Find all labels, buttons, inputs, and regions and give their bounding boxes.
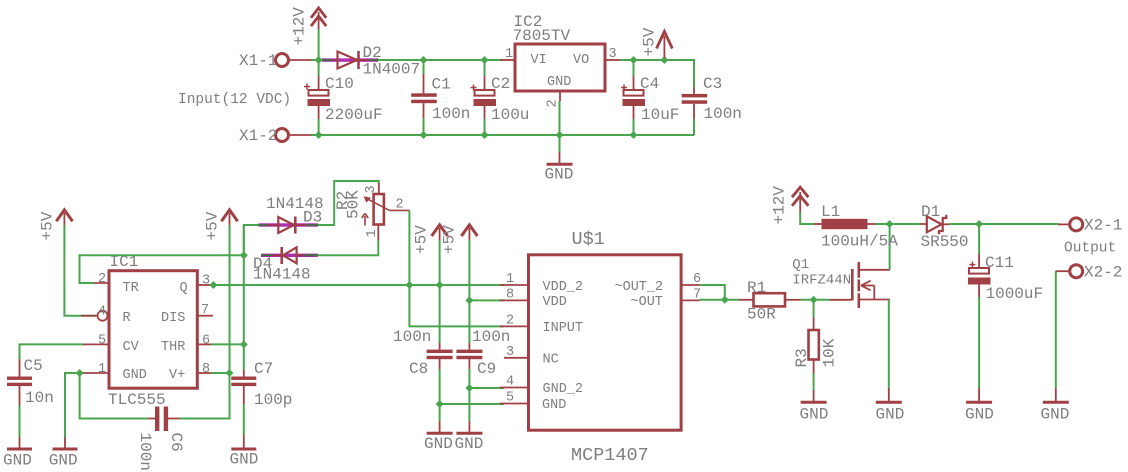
- ground symbol (C11): [965, 388, 994, 424]
- svg-text:VI: VI: [531, 53, 547, 68]
- svg-text:INPUT: INPUT: [543, 321, 584, 336]
- svg-text:GND: GND: [230, 451, 259, 469]
- svg-text:VO: VO: [573, 53, 589, 68]
- pin 4 GND_2: [500, 387, 529, 389]
- junction at V+ pin 8: [226, 369, 234, 377]
- svg-text:100n: 100n: [704, 105, 742, 123]
- ground symbol (Q1): [876, 388, 905, 424]
- svg-text:R: R: [123, 311, 131, 326]
- svg-text:100n: 100n: [393, 328, 431, 346]
- svg-text:7805TV: 7805TV: [513, 27, 571, 45]
- svg-text:Q1: Q1: [792, 257, 809, 273]
- junction TR/D4 net: [240, 251, 248, 259]
- svg-text:2: 2: [396, 198, 404, 213]
- svg-text:50K: 50K: [345, 190, 363, 219]
- wire vertical D3/D4/THR/C7: [243, 225, 245, 370]
- junction THR / C7 vertical: [240, 340, 248, 348]
- svg-text:C5: C5: [24, 357, 43, 375]
- svg-text:MCP1407: MCP1407: [571, 445, 649, 466]
- junction below C10: [315, 131, 323, 139]
- wire C6 right to V+ junction: [180, 373, 230, 419]
- junction above C11: [975, 220, 983, 228]
- svg-text:3: 3: [609, 47, 617, 62]
- svg-text:8: 8: [202, 362, 210, 377]
- ground symbol (C8): [424, 421, 453, 453]
- wire down to INPUT pin: [409, 285, 504, 326]
- connector X2-2: [1056, 264, 1123, 282]
- svg-text:100uH/5A: 100uH/5A: [821, 233, 898, 251]
- svg-text:100u: 100u: [491, 106, 529, 124]
- supply +5V symbol (left, to pin 4): [39, 210, 73, 241]
- svg-text:C4: C4: [640, 75, 659, 93]
- supply +5V symbol (to VDD_2 net): [413, 225, 448, 254]
- wire R3 to ground: [813, 373, 815, 390]
- junction above C1: [420, 56, 428, 64]
- junction below C2: [481, 131, 489, 139]
- junction L1 / drain: [886, 220, 894, 228]
- resistor R3 10K: [793, 317, 839, 373]
- svg-text:VDD_2: VDD_2: [543, 280, 584, 295]
- wire IC2 VO to +5V rail: [620, 60, 694, 87]
- svg-text:GND_2: GND_2: [543, 382, 584, 397]
- svg-text:4: 4: [506, 375, 514, 390]
- svg-text:1: 1: [98, 362, 106, 377]
- svg-text:IRFZ44N: IRFZ44N: [792, 273, 851, 289]
- svg-text:+12V: +12V: [771, 186, 789, 225]
- wire pin1 to left ground: [65, 373, 82, 437]
- svg-text:1: 1: [506, 272, 514, 287]
- junction C9 gnd / GND_2 pin4 wire: [465, 384, 473, 392]
- wire ~OUT to R1: [700, 299, 740, 301]
- svg-text:R1: R1: [747, 279, 766, 297]
- svg-text:+5V: +5V: [204, 211, 222, 240]
- pin 3 NC: [504, 357, 529, 359]
- ground symbol (IC1 GND): [49, 437, 78, 470]
- supply +5V symbol (top): [641, 27, 673, 58]
- wire +12V to L1: [800, 212, 814, 224]
- junction below C4: [630, 131, 638, 139]
- junction at Q pin: [209, 281, 217, 289]
- junction below IC2 GND: [556, 131, 564, 139]
- svg-text:1: 1: [505, 47, 513, 62]
- svg-text:+5V: +5V: [39, 211, 57, 240]
- junction below +5V arrow: [660, 56, 668, 64]
- ground symbol (C5): [3, 437, 32, 470]
- wire D3 left corner: [244, 225, 259, 255]
- svg-text:VDD: VDD: [543, 295, 567, 310]
- svg-text:CV: CV: [123, 340, 140, 355]
- svg-text:GND: GND: [49, 452, 78, 470]
- junction Q net / R2: [405, 281, 413, 289]
- pin 8 V+: [197, 372, 211, 374]
- wire Q output net: [211, 284, 409, 286]
- svg-text:GND: GND: [547, 75, 571, 90]
- junction above C2: [481, 56, 489, 64]
- pin 7 ~OUT: [681, 299, 699, 301]
- svg-text:GND: GND: [1041, 406, 1070, 424]
- svg-text:R3: R3: [793, 348, 811, 367]
- svg-text:C6: C6: [167, 433, 185, 452]
- ground symbol (X2-2): [1041, 388, 1070, 424]
- diode D1 SR550 (schottky): [920, 203, 969, 251]
- svg-text:X1-1: X1-1: [239, 52, 277, 70]
- IC U$1 MCP1407: [500, 229, 702, 466]
- svg-text:V+: V+: [169, 368, 185, 383]
- diode D4 1N4148: [253, 247, 311, 284]
- svg-text:2200uF: 2200uF: [325, 106, 383, 124]
- wire junction to GND pin 5: [440, 403, 504, 405]
- svg-text:GND: GND: [876, 406, 905, 424]
- svg-text:100n: 100n: [432, 105, 470, 123]
- wire D2 cathode to IC2 VI: [378, 59, 503, 61]
- svg-text:~OUT: ~OUT: [631, 295, 663, 310]
- wire THR: pin6 to vertical: [211, 343, 244, 345]
- ground symbol (C9): [455, 421, 484, 453]
- pin 6 ~OUT_2: [681, 284, 699, 286]
- svg-text:+12V: +12V: [291, 7, 309, 46]
- svg-text:C7: C7: [254, 360, 273, 378]
- IC2 7805TV voltage regulator: [501, 13, 621, 108]
- capacitor C11 1000uF: [968, 224, 1043, 388]
- svg-text:+5V: +5V: [641, 27, 659, 56]
- svg-text:1N4148: 1N4148: [253, 266, 311, 284]
- svg-text:1N4007: 1N4007: [363, 61, 421, 79]
- wire +12V net vertical to rail: [318, 29, 320, 60]
- net overlay (magenta) through D4: [261, 254, 318, 257]
- svg-text:GND: GND: [800, 406, 829, 424]
- connector X1-2: [239, 127, 312, 145]
- connector X2-1: [1058, 217, 1122, 235]
- capacitor C1 100n: [411, 60, 470, 135]
- svg-text:GND: GND: [542, 398, 566, 413]
- svg-text:TR: TR: [123, 281, 139, 296]
- IC1 TLC555: [81, 253, 213, 409]
- capacitor C8 100n: [393, 328, 453, 421]
- wire junction to GND_2 pin 4: [469, 387, 504, 389]
- svg-text:10K: 10K: [821, 338, 839, 367]
- svg-text:50R: 50R: [747, 306, 776, 324]
- net overlay (magenta) through D3: [259, 223, 318, 226]
- wire R2 pin2 down: [408, 210, 410, 285]
- wire to VDD pin 8: [469, 299, 504, 301]
- svg-text:GND: GND: [545, 166, 574, 184]
- svg-text:~OUT_2: ~OUT_2: [615, 280, 664, 295]
- wire pin1 down to C6 left: [80, 373, 148, 419]
- svg-text:C9: C9: [477, 360, 496, 378]
- wire +5V down through junction to C8: [439, 240, 441, 343]
- svg-text:+5V: +5V: [441, 225, 459, 254]
- wire Q1 source to ground: [888, 300, 890, 389]
- junction at IC1 pin1 (GND net): [76, 369, 84, 377]
- svg-text:GND: GND: [3, 452, 32, 470]
- wire D1 to X2-1: [950, 223, 1060, 225]
- svg-text:GND: GND: [455, 435, 484, 453]
- svg-text:3: 3: [364, 185, 379, 193]
- diode D3 1N4148: [266, 195, 324, 234]
- svg-text:+5V: +5V: [413, 225, 431, 254]
- svg-text:C2: C2: [491, 75, 510, 93]
- pin 1 VDD_2: [500, 284, 529, 286]
- capacitor C5 10n: [7, 344, 83, 437]
- inductor L1 100uH/5A: [814, 203, 898, 251]
- wire +5V down to C9: [468, 240, 470, 343]
- svg-text:Input(12 VDC): Input(12 VDC): [178, 92, 291, 108]
- svg-text:Output: Output: [1064, 241, 1116, 257]
- svg-text:THR: THR: [161, 340, 185, 355]
- capacitor C10 2200uF: [304, 60, 383, 135]
- svg-text:X2-1: X2-1: [1084, 217, 1122, 235]
- pin 2 INPUT: [500, 325, 529, 327]
- pin 5 GND: [500, 403, 529, 405]
- supply +12V symbol (top left): [291, 7, 327, 46]
- svg-text:10uF: 10uF: [641, 106, 679, 124]
- svg-text:U$1: U$1: [572, 229, 605, 250]
- transistor Q1 IRFZ44N: [792, 257, 890, 308]
- wire Q1 drain up to L1 junction: [889, 224, 891, 270]
- wire D4 right to R2 pin1: [318, 240, 379, 255]
- svg-text:C3: C3: [703, 75, 722, 93]
- supply +12V symbol (right): [771, 186, 809, 225]
- potentiometer R2 50K: [334, 183, 410, 240]
- junction below C1: [420, 131, 428, 139]
- svg-text:2: 2: [546, 99, 561, 107]
- svg-text:L1: L1: [821, 203, 840, 221]
- svg-text:100p: 100p: [254, 391, 292, 409]
- junction VDD pin 8: [465, 296, 473, 304]
- svg-text:GND: GND: [965, 406, 994, 424]
- svg-text:4: 4: [98, 305, 106, 320]
- wire GND rail (top section): [311, 134, 694, 136]
- junction above C4: [630, 56, 638, 64]
- svg-text:SR550: SR550: [921, 233, 969, 251]
- svg-text:TLC555: TLC555: [108, 391, 166, 409]
- svg-text:X1-2: X1-2: [239, 127, 277, 145]
- pin 8 VDD: [500, 299, 529, 301]
- diode D2 1N4007: [338, 44, 421, 79]
- svg-text:100n: 100n: [136, 433, 154, 471]
- wire IC2 GND pin to rail: [559, 101, 561, 135]
- pin 1 GND: [82, 372, 109, 374]
- pin 4 R with inversion circle: [81, 315, 97, 317]
- junction at X1-1/C10/+12V: [315, 56, 323, 64]
- wire Q net to U$1 VDD_2: [409, 284, 504, 286]
- svg-text:NC: NC: [543, 353, 559, 368]
- svg-text:C10: C10: [325, 75, 354, 93]
- junction +5V / VDD_2 net: [436, 281, 444, 289]
- pin 3 Q: [197, 284, 211, 286]
- pin 5 CV: [83, 343, 109, 345]
- svg-text:X2-2: X2-2: [1084, 264, 1122, 282]
- wire R1 to gate junction: [801, 299, 831, 301]
- net overlay (magenta) through D2: [322, 58, 378, 61]
- capacitor C6 100n (horizontal): [136, 407, 185, 471]
- svg-text:2: 2: [506, 314, 514, 329]
- wire D3 right to R2 pin3: [318, 181, 379, 225]
- svg-text:3: 3: [202, 274, 210, 289]
- resistor R1 50R: [739, 279, 801, 324]
- wire X1-1 to junction: [311, 59, 319, 61]
- wire +5V to IC1 pin 4 (R): [64, 225, 96, 316]
- junction gate / R3: [810, 296, 818, 304]
- svg-text:C11: C11: [985, 254, 1014, 272]
- pin 2 TR: [82, 282, 109, 284]
- svg-text:8: 8: [506, 288, 514, 303]
- supply +5V symbol (second, to pin 8): [204, 210, 238, 241]
- svg-text:10n: 10n: [25, 389, 54, 407]
- ground symbol (R3): [800, 390, 829, 424]
- svg-text:D3: D3: [303, 209, 322, 227]
- ground symbol (C7): [230, 435, 259, 469]
- capacitor C7 100p: [231, 360, 292, 435]
- wire V+ pin to junction: [211, 372, 230, 374]
- svg-text:DIS: DIS: [161, 311, 185, 326]
- svg-text:1000uF: 1000uF: [986, 285, 1044, 303]
- svg-text:5: 5: [506, 391, 514, 406]
- pin 7 DIS: [197, 315, 213, 317]
- svg-text:7: 7: [201, 303, 209, 318]
- capacitor C2 100u: [471, 60, 530, 135]
- svg-text:100n: 100n: [472, 328, 510, 346]
- svg-text:GND: GND: [123, 368, 147, 383]
- junction C8 gnd / GND pin5 wire: [436, 400, 444, 408]
- svg-text:3: 3: [506, 345, 514, 360]
- wire X2-2 to ground: [1055, 271, 1057, 388]
- junction OUT pins: [721, 296, 729, 304]
- svg-text:Q: Q: [180, 281, 188, 296]
- capacitor C4 10uF: [621, 60, 679, 135]
- wire TR: pin2 up and right to diode net: [80, 255, 245, 283]
- ground symbol (IC2): [545, 135, 574, 184]
- svg-text:5: 5: [98, 334, 106, 349]
- wire junction down to R3: [813, 300, 815, 317]
- wire L1 to D1: [876, 223, 921, 225]
- wire ~OUT_2 to junction: [700, 285, 725, 300]
- svg-text:D1: D1: [921, 203, 940, 221]
- svg-text:C1: C1: [432, 75, 451, 93]
- svg-text:C8: C8: [409, 360, 428, 378]
- svg-text:GND: GND: [424, 435, 453, 453]
- pin 6 THR: [197, 343, 211, 345]
- svg-text:1: 1: [365, 229, 380, 237]
- capacitor C9 100n: [456, 328, 510, 421]
- wire +5V to V+ junction: [229, 225, 231, 373]
- connector X1-1: [239, 52, 312, 70]
- svg-text:2: 2: [98, 272, 106, 287]
- svg-text:6: 6: [202, 334, 210, 349]
- supply +5V symbol (to VDD net): [441, 225, 478, 254]
- capacitor C3 100n: [682, 75, 742, 135]
